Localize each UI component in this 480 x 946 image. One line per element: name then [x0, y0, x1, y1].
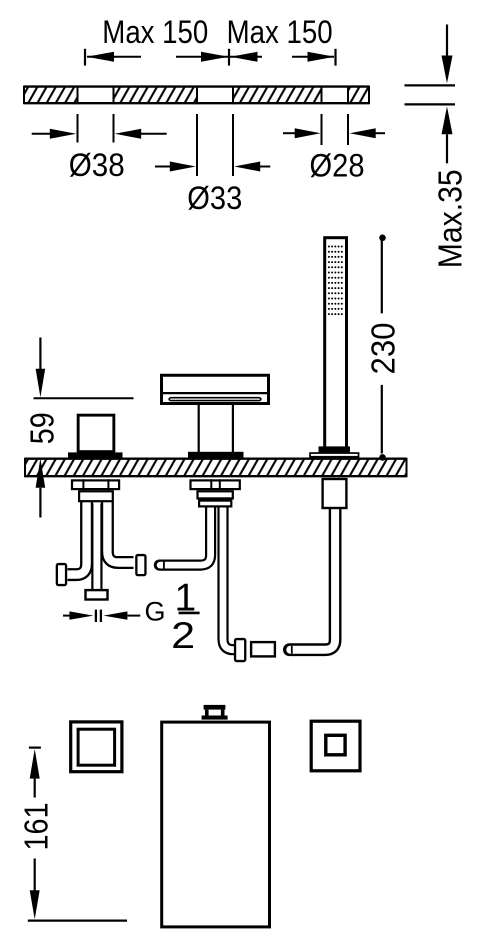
svg-text:G: G	[144, 596, 165, 626]
svg-text:230: 230	[364, 323, 401, 375]
svg-text:Ø28: Ø28	[310, 148, 365, 184]
svg-text:2: 2	[171, 615, 195, 656]
svg-text:Max 150: Max 150	[102, 14, 208, 50]
svg-text:Max 150: Max 150	[227, 14, 333, 50]
svg-text:Max.35: Max.35	[431, 169, 468, 268]
svg-text:Ø33: Ø33	[187, 180, 242, 216]
svg-text:59: 59	[25, 412, 62, 444]
svg-text:161: 161	[18, 803, 55, 851]
svg-text:Ø38: Ø38	[69, 147, 125, 183]
